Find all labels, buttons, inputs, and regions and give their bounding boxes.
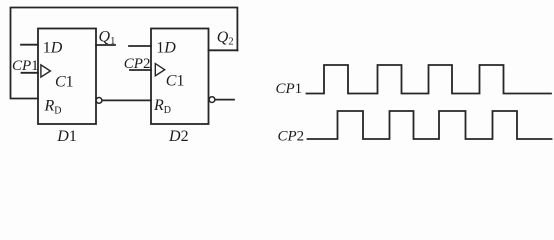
- svg-text:D2: D2: [168, 128, 189, 145]
- svg-text:CP2: CP2: [124, 56, 151, 72]
- clock triangle D2: [155, 64, 164, 76]
- waveform CP1: [307, 65, 552, 94]
- wire Q1 output stub: [96, 44, 115, 46]
- wire 1D input D1: [21, 44, 38, 46]
- waveform CP2: [308, 111, 552, 139]
- wire 1D input D2: [129, 45, 151, 47]
- wire Q2-bar output: [215, 99, 234, 101]
- bubble Q2-bar: [209, 97, 215, 103]
- flip-flop D1 box: [38, 29, 96, 125]
- wire C1 input D2: [130, 69, 151, 71]
- svg-text:CP1: CP1: [276, 81, 303, 97]
- svg-text:C1: C1: [55, 74, 74, 91]
- svg-text:CP2: CP2: [278, 129, 305, 145]
- flip-flop D2 box: [151, 29, 209, 125]
- wire Q1-bar to RD of D2: [102, 99, 151, 101]
- svg-text:1D: 1D: [43, 40, 63, 57]
- clock triangle D1: [41, 65, 51, 77]
- svg-text:1D: 1D: [156, 40, 176, 57]
- svg-text:D1: D1: [56, 128, 77, 145]
- svg-text:C1: C1: [166, 72, 185, 89]
- wire C1 input D1: [22, 72, 39, 74]
- wire Q2 output stub: [209, 49, 238, 51]
- wire feedback top: [11, 8, 238, 99]
- bubble Q1-bar: [96, 98, 102, 104]
- svg-text:CP1: CP1: [12, 58, 39, 74]
